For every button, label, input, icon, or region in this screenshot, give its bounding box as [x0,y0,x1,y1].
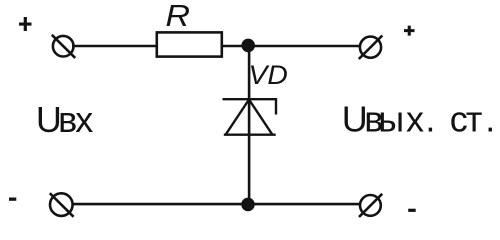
node junction bottom [241,198,255,212]
resistor R body [157,32,222,56]
polarity minus bottom-right [408,209,416,212]
svg-text:Uвх: Uвх [36,99,93,140]
terminal input - (bottom-left) [50,193,74,217]
terminal input + (top-left) [52,35,75,58]
node junction top [241,39,255,53]
svg-text:VD: VD [249,60,288,90]
zener diode VD cathode bar with hook [223,99,277,114]
polarity plus top-right [404,26,415,36]
polarity minus bottom-left [9,198,16,201]
wire bottom rail [72,203,360,206]
svg-text:Uвых. ст.: Uвых. ст. [342,99,496,140]
wire top rail: terminal to resistor [72,45,157,48]
polarity plus top-left [19,17,32,31]
zener diode VD triangle [224,100,276,135]
svg-text:R: R [166,0,191,33]
wire vertical branch through VD [248,46,251,204]
terminal output - (bottom-right) [359,194,382,217]
wire top rail: resistor to right terminal through node [222,45,360,48]
terminal output + (top-right) [359,36,383,60]
